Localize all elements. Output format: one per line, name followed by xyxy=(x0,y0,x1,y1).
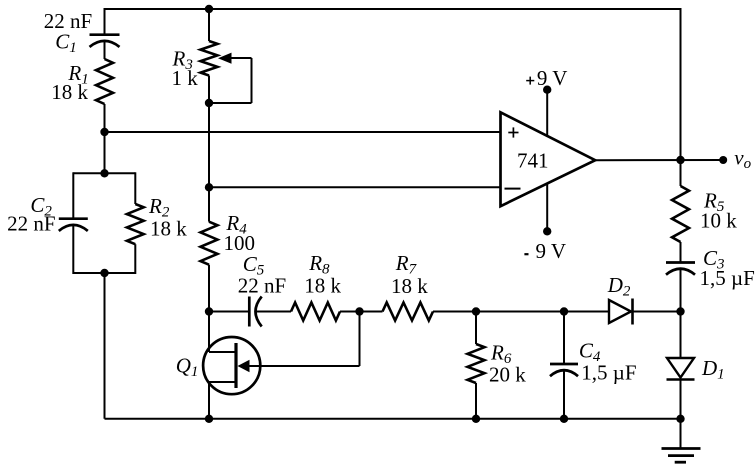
terminal -9V xyxy=(543,227,551,235)
node ground junction xyxy=(676,415,684,423)
node output junction xyxy=(676,156,684,164)
node R8 R7 gate junction xyxy=(355,307,363,315)
wire C2 branch lower xyxy=(72,225,74,274)
svg-text:9 V: 9 V xyxy=(537,66,568,90)
node box top xyxy=(100,169,108,177)
node C3 D1 junction xyxy=(676,307,684,315)
op-amp - input label xyxy=(505,188,521,190)
wire down to Q1 drain xyxy=(208,312,210,353)
wire node to R6 xyxy=(475,312,477,345)
wire bottom rail xyxy=(105,418,681,420)
wire node to D1 xyxy=(680,312,682,359)
wire D1 to bottom rail xyxy=(680,380,682,419)
wire feedback right vertical xyxy=(680,8,682,160)
node Q1 source bottom rail xyxy=(205,415,213,423)
node R3 wiper junction xyxy=(205,99,213,107)
wire - input row xyxy=(209,186,501,188)
transistor Q1 (JFET) xyxy=(203,337,260,394)
wire C5 to R8 xyxy=(256,311,292,313)
resistor R6 zigzag xyxy=(468,344,485,383)
wire gate horizontal xyxy=(249,365,360,367)
wire + input row xyxy=(105,131,501,133)
op-amp U1 (741) xyxy=(501,112,596,206)
potentiometer R3 wiper arrow xyxy=(229,57,252,59)
terminal output xyxy=(719,156,727,164)
svg-text:10 k: 10 k xyxy=(700,208,737,232)
wire wiper loop right xyxy=(251,58,253,103)
node top rail R3 junction xyxy=(205,5,213,13)
wire node to R4 xyxy=(208,187,210,221)
svg-text:22 nF: 22 nF xyxy=(238,274,286,298)
wire C1 to R1 xyxy=(104,41,106,59)
capacitor C2 xyxy=(59,219,88,231)
svg-text:18 k: 18 k xyxy=(304,274,341,298)
svg-text:18 k: 18 k xyxy=(150,217,187,241)
wire D2 to C3 node xyxy=(633,311,681,313)
wire C2 branch upper xyxy=(72,172,74,218)
wire C1 top stub xyxy=(104,8,106,35)
wire C4 to bottom rail xyxy=(563,370,565,419)
diode D1 xyxy=(667,358,694,378)
op-amp + input label xyxy=(508,127,518,137)
wire +9V supply xyxy=(546,90,548,137)
wire C4 node to D2 xyxy=(564,311,609,313)
svg-text:1,5 µF: 1,5 µF xyxy=(581,360,636,384)
resistor R1 zigzag xyxy=(96,59,113,104)
wire C3 to node xyxy=(680,269,682,312)
wire R8 to node xyxy=(340,311,360,313)
node C4 bottom rail xyxy=(560,415,568,423)
wire R3 top stub xyxy=(208,8,210,41)
svg-text:741: 741 xyxy=(517,148,549,172)
wire R3 node down to inverting node xyxy=(208,103,210,187)
wire R6 node to C4 node xyxy=(476,311,564,313)
capacitor C3 xyxy=(666,263,695,275)
wire R4 to C5 node xyxy=(208,265,210,312)
potentiometer R3 zigzag xyxy=(201,41,218,76)
resistor R2 zigzag xyxy=(127,204,144,244)
wire left down to bottom rail xyxy=(104,273,106,419)
wire R1 to node xyxy=(104,104,106,132)
wire R2 branch upper xyxy=(134,172,136,204)
resistor R4 zigzag xyxy=(201,222,218,265)
diode D2 xyxy=(609,300,631,323)
wire R2 branch lower xyxy=(134,244,136,274)
resistor R8 zigzag xyxy=(291,303,340,321)
wire output xyxy=(595,159,723,161)
wire R3 bottom to node xyxy=(208,76,210,104)
capacitor C4 xyxy=(550,364,578,376)
svg-text:20 k: 20 k xyxy=(489,363,526,387)
wire box top edge xyxy=(73,172,135,174)
wire ground stem xyxy=(680,419,682,449)
svg-text:1,5 µF: 1,5 µF xyxy=(700,266,755,290)
wire node to R7 xyxy=(360,311,383,313)
wire R7 to R6 node xyxy=(433,311,476,313)
svg-text:18 k: 18 k xyxy=(51,80,88,104)
node C4 junction xyxy=(560,307,568,315)
wire R6 to bottom rail xyxy=(475,383,477,419)
node R4 C5 junction xyxy=(205,307,213,315)
node inverting junction xyxy=(205,183,213,191)
wire output node to R5 xyxy=(680,160,682,186)
node R6 bottom rail xyxy=(472,415,480,423)
wire -9V supply xyxy=(546,183,548,231)
node R7 R6 junction xyxy=(472,307,480,315)
ground xyxy=(662,449,701,463)
wire node to C4 xyxy=(563,312,565,365)
svg-text:9 V: 9 V xyxy=(536,239,567,263)
node box bottom xyxy=(100,269,108,277)
node noninverting junction xyxy=(100,128,108,136)
wire box bottom edge xyxy=(73,272,135,274)
terminal +9V xyxy=(543,86,551,94)
resistor R7 zigzag xyxy=(383,303,434,321)
capacitor C5 xyxy=(249,297,261,327)
wire gate vertical up xyxy=(359,312,361,367)
capacitor C1 xyxy=(90,35,120,47)
label -9 V minus sign xyxy=(524,253,528,255)
wire wiper loop bottom xyxy=(209,102,252,104)
wire node to C5 xyxy=(209,311,249,313)
wire top rail xyxy=(105,8,681,10)
svg-text:1 k: 1 k xyxy=(172,66,199,90)
label +9 V plus sign xyxy=(526,77,534,85)
wire R5 to C3 xyxy=(680,242,682,263)
svg-text:22 nF: 22 nF xyxy=(7,212,55,236)
resistor R5 zigzag xyxy=(672,186,689,242)
wire Q1 source down xyxy=(208,382,210,419)
svg-text:18 k: 18 k xyxy=(391,274,428,298)
wire node to box top xyxy=(104,132,106,173)
